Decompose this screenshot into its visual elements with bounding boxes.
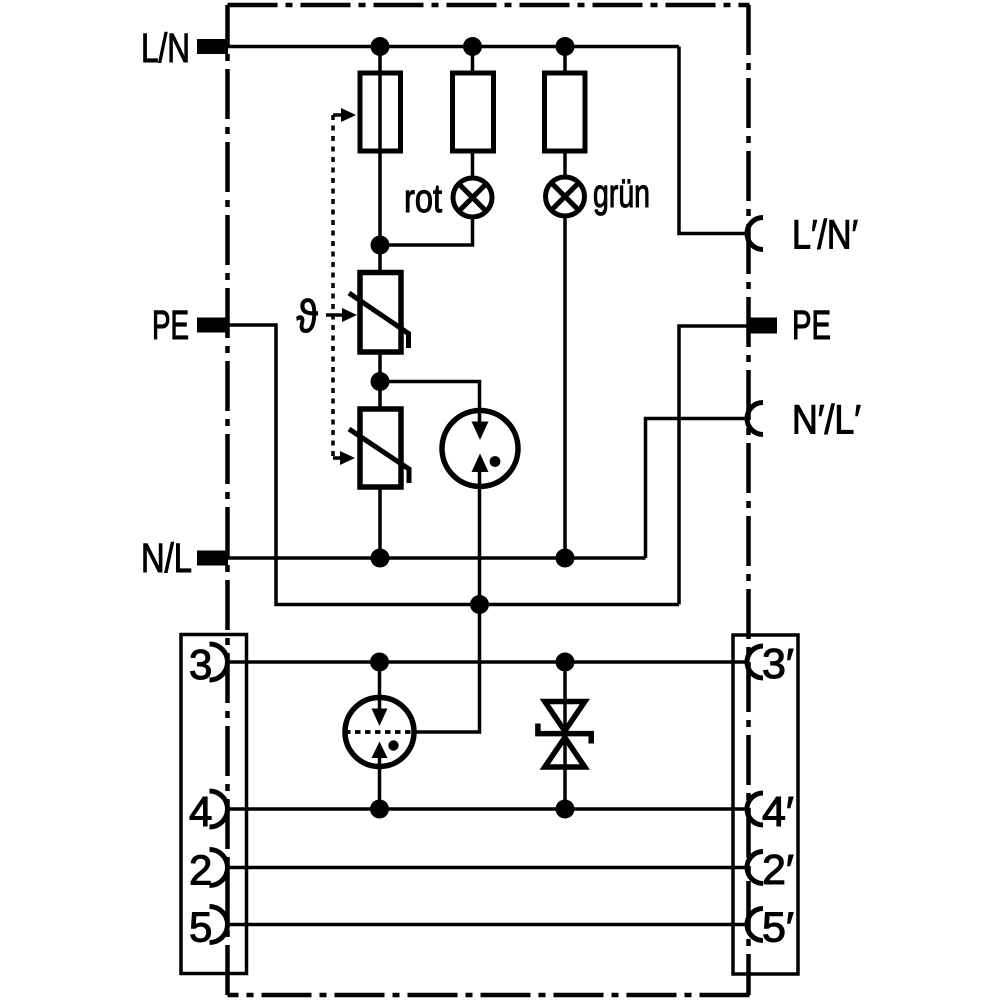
junction node L/N-fuse — [371, 37, 390, 56]
connector arc 5' — [747, 909, 763, 941]
wire green lamp column top — [563, 47, 567, 75]
svg-text:ϑ: ϑ — [297, 290, 318, 342]
spark gap 2 — [345, 698, 414, 767]
connector arc 4' — [747, 793, 763, 825]
monitor arrow at varistor 1 — [326, 313, 342, 317]
wire varistor1 to varistor2 — [378, 352, 382, 409]
svg-text:3′: 3′ — [762, 640, 794, 687]
wire red lamp column top — [471, 47, 475, 75]
varistor 1 — [349, 273, 409, 353]
junction node 3-diode — [556, 653, 575, 672]
connector arc 4 — [210, 791, 228, 827]
enclosure border dash-dot bottom — [228, 993, 750, 998]
fuse — [360, 73, 401, 151]
wire red lamp column mid — [471, 151, 475, 177]
connector arc L'/N' — [747, 218, 763, 250]
wire terminal 2 horizontal — [227, 866, 748, 870]
wire green lamp bottom to N/L — [563, 217, 567, 558]
wire riser to N'/L' — [646, 419, 749, 559]
terminal N/L marker — [197, 551, 228, 566]
connector arc 3 — [210, 644, 228, 680]
junction node varistor1-varistor2 — [371, 372, 390, 391]
enclosure border dash-dot left — [225, 5, 230, 995]
junction node L/N-green — [556, 37, 575, 56]
junction node PE-spark — [470, 595, 489, 614]
connector arc 2' — [747, 852, 763, 884]
wire N/L horizontal — [197, 556, 646, 560]
junction node L/N-red — [463, 37, 482, 56]
resistor red lamp — [453, 73, 494, 151]
resistor green lamp — [545, 73, 586, 151]
connector arc 3' — [747, 646, 763, 678]
svg-text:N′/L′: N′/L′ — [792, 397, 861, 443]
junction node N/L-varistor2 — [371, 549, 390, 568]
svg-text:5: 5 — [189, 904, 212, 951]
wire green lamp column mid — [563, 151, 567, 176]
monitor arrow at fuse — [333, 113, 341, 117]
wire riser to L'/N' — [679, 47, 748, 234]
wire PE node down to spark gap 2 — [416, 605, 480, 733]
svg-text:rot: rot — [404, 177, 442, 221]
wire branch node to spark gap 1 — [380, 382, 480, 424]
connector arc N'/L' — [747, 403, 763, 435]
wire L/N horizontal — [197, 45, 679, 49]
terminal PE right marker — [750, 318, 777, 334]
wire spark gap 2 bottom — [378, 756, 382, 809]
svg-text:PE: PE — [152, 302, 189, 348]
varistor 2 — [349, 409, 409, 487]
wire diode column — [563, 662, 567, 809]
terminal block right — [733, 635, 798, 974]
svg-text:N/L: N/L — [141, 535, 192, 581]
wire red lamp bottom to node — [381, 217, 473, 245]
junction node 3-sparkgap2 — [370, 653, 389, 672]
wire terminal 4 horizontal — [227, 807, 748, 811]
wire spark gap 1 bottom to PE node — [478, 471, 482, 605]
lamp green — [546, 177, 585, 216]
connector arc 5 — [210, 907, 228, 943]
svg-text:2′: 2′ — [762, 846, 794, 893]
wire terminal 5 horizontal — [227, 923, 748, 927]
lamp red — [453, 178, 492, 217]
svg-text:grün: grün — [593, 172, 650, 216]
junction node 4-sparkgap2 — [370, 800, 389, 819]
wire varistor1 top — [378, 245, 382, 273]
svg-text:4: 4 — [189, 788, 212, 835]
wire PE left — [197, 325, 679, 605]
junction node fuse-varistor1 — [371, 236, 390, 255]
wire varistor2 bottom to N/L — [378, 487, 382, 558]
terminal block left — [181, 635, 247, 974]
connector arc 2 — [210, 850, 228, 886]
terminal L/N marker — [197, 39, 228, 54]
wire fuse column — [378, 47, 382, 246]
enclosure border dash-dot top — [228, 3, 750, 8]
wire spark gap 2 side tap — [378, 662, 382, 710]
svg-text:PE: PE — [792, 302, 831, 348]
terminal PE left marker — [197, 318, 228, 333]
monitor arrow at varistor 2 — [333, 456, 340, 460]
wire terminal 3 horizontal — [227, 660, 748, 664]
svg-text:4′: 4′ — [762, 788, 794, 835]
suppressor diode — [538, 702, 591, 768]
junction node N/L-green — [556, 549, 575, 568]
thermal monitor dashed line — [331, 115, 335, 458]
svg-text:2: 2 — [189, 847, 212, 894]
enclosure border dash-dot right — [746, 5, 751, 995]
junction node 4-diode — [556, 800, 575, 819]
spark gap 1 — [442, 411, 518, 487]
svg-text:5′: 5′ — [762, 904, 794, 951]
svg-text:L/N: L/N — [141, 25, 190, 71]
svg-text:3: 3 — [189, 641, 212, 688]
wire PE riser right — [679, 326, 750, 605]
svg-text:L′/N′: L′/N′ — [792, 212, 858, 258]
